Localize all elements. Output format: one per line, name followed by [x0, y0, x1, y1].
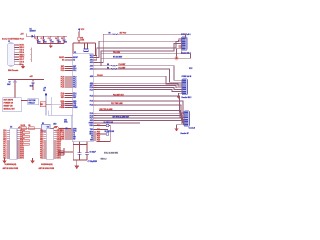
bridge block designator: [42, 123, 44, 125]
svg-text:P2.0 NET: P2.0 NET: [119, 64, 126, 66]
label net AD4: [113, 51, 120, 54]
svg-text:PSEN: PSEN: [73, 107, 77, 109]
svg-text:C2: C2: [41, 38, 43, 40]
connector P1 body: [182, 37, 188, 51]
connector P3 body: [184, 111, 190, 126]
svg-text:P1.7: P1.7: [61, 95, 64, 97]
wire net C5: [96, 113, 184, 119]
power port VCC2: [43, 88, 47, 116]
capacitor C9: [7, 82, 16, 98]
ground U1: [74, 166, 79, 169]
label key2: [105, 131, 116, 133]
connector P1 sublabel: [181, 51, 191, 54]
svg-text:P3.0: P3.0: [97, 138, 100, 140]
svg-text:P6.6: P6.6: [3, 142, 6, 144]
svg-text:OUT1: OUT1: [20, 157, 24, 159]
svg-text:C7 30pF/25V: C7 30pF/25V: [88, 161, 98, 163]
svg-text:P2.1: P2.1: [90, 89, 93, 91]
wire DB9 tie: [31, 47, 32, 61]
svg-text:INT0: INT0: [90, 132, 93, 134]
label key1: [104, 122, 115, 124]
svg-text:OUT2: OUT2: [20, 155, 24, 157]
wire net C4: [99, 111, 184, 118]
wire U1 gnd drops: [73, 141, 88, 144]
svg-text:P1.1: P1.1: [3, 148, 6, 150]
wire P1 pin7 tie: [174, 49, 181, 61]
svg-text:TXD 3: TXD 3: [19, 50, 24, 52]
svg-text:OUT2: OUT2: [57, 155, 61, 157]
svg-text:Conn1-8: Conn1-8: [189, 128, 195, 130]
crystal Y1: [83, 49, 88, 52]
wire left ext: [59, 151, 74, 152]
svg-text:CON8 1x8 B: CON8 1x8 B: [182, 76, 192, 78]
oscillator block: [28, 99, 39, 105]
svg-text:P1.1: P1.1: [40, 132, 43, 134]
svg-text:OUT15: OUT15: [57, 130, 62, 132]
svg-text:P0.0: P0.0: [40, 130, 43, 132]
wire key1: [96, 126, 110, 134]
label net C3: [111, 103, 123, 105]
label U3 note: [39, 167, 55, 170]
wire XTAL1 drop: [84, 43, 86, 48]
svg-text:T1: T1: [62, 135, 64, 137]
svg-text:P1.6: P1.6: [73, 93, 76, 95]
svg-text:P3.0: P3.0: [97, 136, 100, 138]
svg-text:DSR 6: DSR 6: [19, 57, 24, 59]
svg-text:P1.2: P1.2: [73, 81, 76, 83]
svg-text:OUT10: OUT10: [57, 140, 62, 142]
svg-text:OUT6: OUT6: [20, 148, 24, 150]
connector P3 pins: [181, 112, 188, 126]
wire net C3: [96, 105, 184, 116]
svg-text:P5.5: P5.5: [40, 140, 43, 142]
svg-text:R9: R9: [107, 67, 109, 69]
svg-text:P1.1: P1.1: [73, 79, 76, 81]
svg-text:T0: T0: [91, 136, 93, 138]
svg-text:P0.0: P0.0: [3, 146, 6, 148]
transistor array U2 designator: [10, 127, 12, 129]
svg-text:P0.4 AD4: P0.4 AD4: [113, 51, 120, 54]
label U2 note: [3, 167, 19, 170]
svg-text:P3.3: P3.3: [40, 152, 43, 154]
svg-text:+5V: +5V: [20, 34, 24, 36]
label net C4: [100, 108, 113, 111]
wire net AD4 loop: [101, 45, 190, 58]
svg-text:OUT12: OUT12: [57, 136, 62, 138]
svg-text:U1: U1: [74, 52, 76, 54]
svg-text:104: 104: [64, 41, 67, 44]
svg-text:R4 1K: R4 1K: [21, 124, 26, 127]
svg-text:VER 1.0: VER 1.0: [101, 158, 107, 160]
resistor R1: [78, 37, 85, 42]
svg-text:X1: X1: [62, 60, 64, 62]
diode LED1: [53, 124, 58, 132]
wire VCC pin drop: [95, 43, 97, 55]
svg-text:P2.7: P2.7: [90, 118, 93, 120]
svg-text:OUT5: OUT5: [20, 150, 24, 152]
U1 right pins: [89, 55, 97, 142]
svg-text:RST: RST: [61, 66, 64, 68]
svg-text:RXD: RXD: [61, 101, 65, 103]
ground P2: [177, 96, 181, 99]
wire net C6: [96, 116, 184, 122]
svg-text:RXD 2: RXD 2: [19, 47, 24, 49]
svg-text:10uF: 10uF: [30, 85, 34, 87]
svg-text:DCD 1: DCD 1: [19, 45, 24, 47]
wire top rail U1: [73, 42, 96, 43]
wire reset rail: [8, 79, 44, 82]
svg-text:CTS 8: CTS 8: [19, 62, 24, 64]
connector P2 label: [182, 76, 192, 78]
U1 right net labels: [97, 74, 103, 142]
connector P1 pins: [179, 38, 186, 50]
wire net B8 gnd: [178, 93, 182, 96]
resistor R4: [21, 124, 27, 130]
svg-text:C9: C9: [9, 82, 11, 84]
wire net B4: [96, 83, 182, 86]
capacitor C1: [35, 36, 41, 44]
svg-text:P3.0: P3.0: [73, 68, 76, 70]
svg-text:P7.7: P7.7: [3, 144, 6, 146]
transistor array U2 body: [10, 129, 17, 160]
svg-text:P6.6: P6.6: [40, 157, 43, 159]
svg-text:P3.1: P3.1: [73, 70, 76, 72]
label net AD0: [109, 32, 127, 36]
capacitor C10: [30, 82, 35, 90]
svg-text:LED: LED: [53, 124, 57, 126]
svg-text:P2.5: P2.5: [90, 113, 93, 115]
note line 2: [101, 158, 107, 160]
svg-text:Header 8B 2: Header 8B 2: [182, 97, 192, 99]
ground caps: [49, 44, 53, 49]
svg-text:P6.6: P6.6: [3, 157, 6, 159]
svg-text:+5V: +5V: [30, 76, 34, 78]
svg-text:1N4007: 1N4007: [30, 30, 36, 33]
transistor array U3 body: [46, 129, 53, 160]
label net AD5: [113, 56, 122, 59]
wire key mid: [96, 129, 108, 131]
svg-text:P3.1: P3.1: [61, 70, 64, 72]
resistor R10: [106, 124, 109, 127]
svg-text:P5.5: P5.5: [3, 155, 6, 157]
svg-text:OUT11: OUT11: [57, 138, 62, 140]
svg-text:+5V: +5V: [18, 127, 21, 129]
svg-text:GND 5: GND 5: [19, 54, 24, 56]
svg-text:T1: T1: [73, 135, 75, 137]
svg-text:OUT9: OUT9: [57, 142, 61, 144]
wire XTAL2 drop: [86, 43, 88, 48]
power +5V label: [20, 34, 24, 36]
wire net AD3: [96, 44, 181, 66]
svg-text:P7.7: P7.7: [40, 144, 43, 146]
svg-text:VCC: VCC: [81, 29, 85, 31]
svg-text:ULN2003A(16): ULN2003A(16): [41, 163, 53, 166]
wire net B7: [96, 90, 182, 92]
svg-text:ULN2003A(16): ULN2003A(16): [5, 163, 17, 166]
svg-text:OUT3: OUT3: [20, 154, 24, 156]
svg-text:P2.0: P2.0: [90, 87, 93, 89]
svg-text:P3.3: P3.3: [3, 136, 6, 138]
switch S1: [3, 98, 22, 112]
svg-text:P3.3: P3.3: [3, 152, 6, 154]
wire key2: [96, 133, 110, 141]
resistor R11: [106, 133, 109, 136]
svg-text:P1.0: P1.0: [61, 77, 64, 79]
svg-text:OUT7: OUT7: [57, 146, 61, 148]
U1 designator: [74, 52, 76, 54]
wire net B5: [96, 85, 182, 87]
svg-text:P2.6 NET OUT: P2.6 NET OUT: [113, 94, 124, 96]
connector P2 body: [182, 79, 188, 95]
svg-text:4K7 P0.0: 4K7 P0.0: [120, 32, 127, 35]
svg-text:P2.2: P2.2: [40, 134, 43, 136]
svg-text:T0: T0: [62, 133, 64, 135]
svg-text:R1: R1: [81, 38, 83, 40]
svg-text:P2.7 PWR LINE: P2.7 PWR LINE: [111, 103, 123, 105]
wire cap common: [38, 43, 64, 45]
label net C1: [113, 94, 124, 96]
diode D1 label: [30, 28, 36, 32]
resistor R5: [28, 125, 34, 130]
wire net B2: [96, 69, 182, 82]
svg-text:C3: C3: [48, 38, 50, 40]
svg-text:RESET CIR: RESET CIR: [4, 105, 14, 107]
svg-text:RXD TXD ALARM: RXD TXD ALARM: [100, 108, 113, 111]
capacitor C11: [59, 119, 71, 129]
sheet bracket: [48, 97, 72, 131]
svg-text:X1: X1: [73, 60, 75, 62]
svg-text:ANT IN HIGH CURR: ANT IN HIGH CURR: [39, 167, 55, 170]
svg-text:P6.6: P6.6: [40, 142, 43, 144]
svg-text:R8: R8: [107, 64, 109, 66]
U3 pins: [40, 130, 61, 160]
wire S1 to osc: [21, 100, 28, 102]
svg-text:DB9 Female: DB9 Female: [8, 70, 18, 72]
label net B1: [107, 64, 125, 67]
connector J1 pins 1-9: [14, 45, 24, 66]
svg-text:P2.2: P2.2: [3, 134, 6, 136]
transistor array U3 designator: [47, 127, 49, 129]
svg-text:T0: T0: [73, 133, 75, 135]
wire net B3: [96, 76, 182, 84]
svg-text:P1.6: P1.6: [61, 93, 64, 95]
ground U2: [2, 158, 6, 163]
label U2 part: [5, 163, 17, 166]
svg-text:P2.3: P2.3: [90, 101, 93, 103]
svg-text:P3.0: P3.0: [97, 132, 100, 134]
svg-text:S2 KEY1 10K: S2 KEY1 10K: [104, 122, 115, 124]
U1 left pins: [59, 56, 78, 140]
svg-text:R2: R2: [43, 90, 45, 92]
U2 pins: [3, 130, 24, 160]
wire VCC drop: [78, 32, 80, 43]
ground U3: [30, 158, 34, 163]
svg-text:R7 AD5 NET: R7 AD5 NET: [113, 56, 122, 59]
svg-text:T1: T1: [91, 138, 93, 140]
label U3 vcc: [54, 127, 57, 129]
svg-text:RTS 7: RTS 7: [19, 59, 24, 61]
svg-text:INT1: INT1: [90, 134, 93, 136]
connector P3 label: [189, 128, 195, 130]
svg-text:P2.6: P2.6: [90, 115, 93, 117]
svg-text:P1.2: P1.2: [61, 81, 64, 83]
wire +5V stub: [25, 34, 27, 37]
capacitor C4: [55, 36, 61, 44]
power VCC port: [78, 28, 85, 32]
wire net B6: [96, 88, 182, 90]
wire net AD2: [96, 42, 181, 60]
connector P2 sublabel: [182, 97, 192, 99]
wire net C2: [96, 101, 184, 114]
capacitor C6: [78, 145, 96, 161]
svg-text:INT0: INT0: [73, 129, 76, 131]
ground P3: [174, 128, 178, 131]
diode D1: [31, 35, 34, 38]
connector J1 designator: [8, 41, 10, 43]
svg-text:Header 8P: Header 8P: [181, 133, 190, 135]
svg-text:MANUAL RST: MANUAL RST: [4, 107, 16, 110]
label DB9 female: [8, 70, 18, 72]
svg-text:Serial COM RS232 Port: Serial COM RS232 Port: [2, 38, 24, 41]
wire net AD1: [96, 40, 181, 57]
svg-text:P1.3: P1.3: [61, 83, 64, 85]
label U3 part: [41, 163, 53, 166]
svg-text:RST SW-PB: RST SW-PB: [4, 100, 14, 102]
svg-text:OUT13: OUT13: [57, 134, 62, 136]
capacitor C7: [85, 145, 98, 163]
wire +5V rail: [26, 35, 67, 37]
svg-text:P0.0: P0.0: [3, 130, 6, 132]
connector J1 DB9 body: [8, 43, 15, 66]
svg-text:EA/VP: EA/VP: [59, 56, 65, 59]
wire power row: [18, 128, 54, 129]
op-amp U1 MCU body: [73, 54, 94, 142]
capacitor C5: [61, 36, 67, 44]
capacitor C2: [41, 36, 47, 44]
svg-text:C4: C4: [55, 37, 57, 40]
wire net C7: [96, 118, 184, 123]
svg-text:P1.1: P1.1: [40, 148, 43, 150]
svg-text:OUT6: OUT6: [57, 148, 61, 150]
svg-text:P1.0: P1.0: [73, 77, 76, 79]
connector P1 label: [181, 33, 191, 36]
power +5V reset: [30, 76, 34, 78]
power label P2: [189, 68, 193, 70]
svg-text:C11: C11: [64, 119, 67, 121]
svg-text:+5V: +5V: [54, 127, 57, 129]
svg-text:P2.2: P2.2: [90, 96, 93, 98]
note line 1: [104, 152, 118, 155]
svg-text:P5.5: P5.5: [40, 155, 43, 157]
svg-text:INT1: INT1: [73, 131, 76, 133]
svg-text:XTAL 11.0592 MHZ: XTAL 11.0592 MHZ: [104, 152, 118, 155]
svg-text:OUT8: OUT8: [57, 144, 61, 146]
capacitor C3: [48, 36, 54, 44]
svg-text:P3.0: P3.0: [61, 68, 64, 70]
wire net C8: [96, 121, 184, 125]
svg-text:ANT IN HIGH CURR: ANT IN HIGH CURR: [3, 167, 19, 170]
svg-text:POWER ON: POWER ON: [4, 103, 14, 105]
svg-text:R6: R6: [109, 33, 111, 35]
svg-text:P1.7: P1.7: [73, 95, 76, 97]
svg-text:U2: U2: [10, 127, 12, 129]
connector P2 pins: [179, 80, 186, 94]
svg-text:WR: WR: [61, 137, 65, 139]
svg-text:RST: RST: [61, 97, 64, 99]
wire P3 gnd: [177, 125, 185, 129]
resistor R3: [40, 102, 46, 107]
wire net AD0: [96, 34, 186, 62]
svg-text:OUT7: OUT7: [20, 146, 24, 148]
svg-text:VCC: VCC: [189, 68, 193, 70]
svg-text:PSEN: PSEN: [89, 123, 93, 125]
wire EA drop: [72, 43, 74, 54]
svg-text:C6 30pF: C6 30pF: [90, 152, 96, 154]
svg-text:P1.5: P1.5: [73, 87, 76, 89]
svg-text:P1.1: P1.1: [3, 132, 6, 134]
wire net B1: [96, 66, 182, 81]
svg-text:RST: RST: [73, 66, 76, 68]
resistor network RP1: [23, 131, 30, 145]
svg-text:C5: C5: [61, 38, 63, 40]
wire gnd bus: [73, 145, 87, 166]
ground DB9: [19, 64, 25, 69]
svg-text:P2.2: P2.2: [3, 150, 6, 152]
svg-text:10K: 10K: [81, 40, 85, 42]
svg-text:OSC 12M: OSC 12M: [28, 100, 36, 102]
wire net C9 short: [96, 122, 140, 124]
svg-text:C1: C1: [35, 38, 37, 40]
svg-text:U3: U3: [47, 127, 49, 129]
svg-text:P1.5: P1.5: [61, 87, 64, 89]
bridge block: [42, 125, 51, 132]
label net B2: [107, 67, 125, 70]
svg-text:+5V: +5V: [43, 88, 47, 90]
label U2 vcc: [18, 127, 21, 129]
svg-text:OUT1: OUT1: [57, 157, 61, 159]
svg-text:PSEN: PSEN: [60, 107, 65, 109]
svg-text:RD: RD: [62, 139, 65, 141]
label net C7: [113, 115, 130, 118]
connector P3 sublabel: [181, 133, 190, 135]
svg-text:P2.1 NET: P2.1 NET: [119, 67, 126, 69]
svg-text:P1.3: P1.3: [73, 83, 76, 85]
svg-text:P0.0: P0.0: [40, 146, 43, 148]
title text serial port: [2, 38, 24, 41]
svg-text:P3.3: P3.3: [40, 136, 43, 138]
wire U3 out: [58, 148, 64, 155]
svg-text:10uF: 10uF: [7, 84, 11, 86]
wire osc to R3: [46, 103, 52, 105]
svg-text:P2.2: P2.2: [40, 150, 43, 152]
svg-text:P1.1: P1.1: [61, 79, 64, 81]
svg-text:RST: RST: [73, 97, 76, 99]
svg-text:P5.5: P5.5: [3, 140, 6, 142]
wire net C1: [96, 96, 184, 112]
